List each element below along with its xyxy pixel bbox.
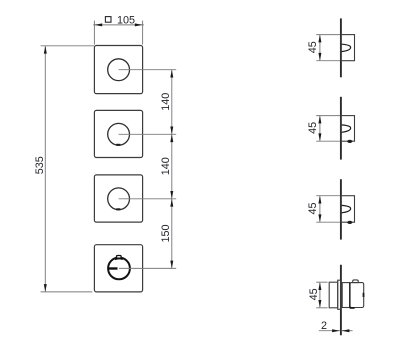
indicator bump bbox=[347, 140, 352, 143]
arrow down bbox=[318, 214, 321, 222]
arrow down bbox=[318, 133, 321, 141]
knob circle 2 bbox=[108, 123, 130, 145]
extension line top bbox=[316, 115, 340, 117]
trim plate bbox=[338, 280, 341, 309]
dimension line 45 bbox=[319, 283, 321, 307]
arrow right bbox=[135, 23, 143, 26]
grip notch right bbox=[363, 293, 365, 297]
knob circle 1 bbox=[108, 59, 130, 81]
plate module 3 bbox=[94, 175, 142, 222]
arrow up bbox=[318, 35, 321, 43]
plate module 4 bbox=[94, 245, 142, 292]
svg-text:140: 140 bbox=[160, 93, 172, 111]
extension line bottom bbox=[316, 221, 340, 223]
arrow down bbox=[318, 53, 321, 61]
dimension line 45 bbox=[319, 35, 321, 60]
wall line bbox=[340, 18, 342, 77]
arrows at knob3 bbox=[170, 191, 173, 199]
safety button tab bbox=[353, 280, 359, 283]
handle profile bbox=[342, 125, 351, 132]
svg-text:150: 150 bbox=[160, 224, 172, 242]
knob grip bbox=[350, 283, 364, 308]
svg-text:45: 45 bbox=[307, 41, 319, 53]
dimension line 45 bbox=[319, 196, 321, 221]
leader from knob 1 center bbox=[119, 69, 177, 71]
arrow up at knob1 bbox=[170, 70, 173, 78]
extension line bottom bbox=[316, 60, 340, 62]
svg-text:45: 45 bbox=[308, 288, 320, 300]
knob 2 indicator tick bbox=[116, 144, 120, 146]
arrow pointing left bbox=[342, 329, 350, 332]
plate module 1 bbox=[94, 46, 142, 94]
bottom dark dash bbox=[350, 307, 355, 309]
arrow down bbox=[318, 300, 321, 308]
knob 3 indicator tick bbox=[116, 208, 120, 210]
svg-text:140: 140 bbox=[160, 157, 172, 175]
plate module 2 bbox=[94, 110, 142, 157]
dimension line left part bbox=[319, 330, 340, 332]
knob base section bbox=[342, 283, 350, 308]
knob body bbox=[341, 116, 355, 142]
svg-text:105: 105 bbox=[117, 15, 135, 27]
arrow pointing right bbox=[332, 329, 340, 332]
leader from knob 3 center bbox=[119, 198, 177, 200]
knob base dark edge bbox=[349, 283, 351, 308]
extension line top bbox=[41, 45, 94, 47]
extension line bottom bbox=[316, 140, 340, 142]
thermostat safety button (top tab) bbox=[117, 256, 122, 259]
svg-text:45: 45 bbox=[307, 202, 319, 214]
svg-text:2: 2 bbox=[321, 320, 327, 332]
extension line bottom bbox=[316, 307, 327, 309]
arrow up bbox=[318, 116, 321, 124]
thermostat top thick arc bbox=[115, 257, 123, 260]
extension line left bbox=[93, 21, 95, 45]
thermostat knob circle 4 bbox=[108, 258, 130, 280]
dimension line bbox=[44, 46, 46, 291]
extension line top bbox=[316, 34, 340, 36]
wall line bbox=[340, 179, 342, 239]
extension line bottom bbox=[41, 291, 93, 293]
svg-text:45: 45 bbox=[307, 122, 319, 134]
indicator bump bbox=[347, 221, 352, 224]
arrow bottom bbox=[44, 284, 47, 292]
arrow top bbox=[44, 46, 47, 54]
dimension line 45 bbox=[319, 116, 321, 140]
dimension line bbox=[93, 24, 144, 26]
dimension line vertical bbox=[171, 70, 173, 269]
arrows at knob2 bbox=[170, 127, 173, 135]
handle profile bbox=[342, 44, 351, 51]
leader from knob 4 center bbox=[119, 267, 176, 269]
arrow down at knob4 bbox=[170, 261, 173, 269]
knob body bbox=[341, 35, 355, 61]
extension line right bbox=[142, 21, 144, 45]
arrow left bbox=[94, 23, 102, 26]
leader from knob 2 center bbox=[119, 133, 177, 135]
svg-text:535: 535 bbox=[34, 156, 46, 174]
dimension line right part bbox=[342, 330, 353, 332]
knob circle 3 bbox=[108, 188, 130, 210]
knob body bbox=[341, 196, 355, 223]
arrow up bbox=[318, 196, 321, 204]
body behind wall bbox=[329, 282, 338, 308]
arrow up bbox=[318, 282, 321, 290]
wall line bbox=[340, 97, 342, 160]
square symbol bbox=[105, 17, 111, 23]
thermostat temperature dash (left) bbox=[108, 267, 117, 269]
extension line top bbox=[316, 195, 340, 197]
wall line bbox=[340, 265, 342, 336]
extension line top bbox=[316, 281, 327, 283]
handle profile bbox=[342, 205, 351, 212]
